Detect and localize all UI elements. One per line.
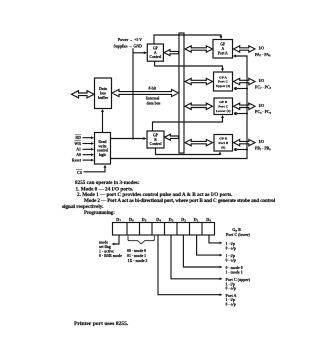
wire: cascade D3 port C upper [171,235,220,279]
svg-text:A1: A1 [76,148,81,152]
svg-text:I/O: I/O [259,79,265,83]
svg-text:data bus: data bus [147,102,161,106]
block: internal bus bar [179,33,184,153]
wire: group A control to port C upper top [155,61,223,70]
svg-text:1 - i/p: 1 - i/p [226,282,236,286]
svg-text:Power → +5 V: Power → +5 V [118,38,142,42]
junction on control vertical at port C upper [246,88,248,90]
external data bus arrow [72,91,95,98]
svg-text:Programming:: Programming: [84,211,115,216]
svg-text:A0: A0 [76,153,81,157]
bus arrow to port B [185,139,213,145]
svg-text:Upper (4): Upper (4) [216,84,231,88]
I/O arrow PC3-PC0 [234,103,256,109]
svg-text:Port C (lower): Port C (lower) [226,233,251,237]
svg-text:Port A: Port A [226,294,237,298]
I/O arrow PA7-PA0 [234,46,256,52]
wire: WR arrow into rw logic [83,143,93,145]
svg-text:Supplies → GND: Supplies → GND [113,45,142,49]
svg-text:00 - mode 0: 00 - mode 0 [127,249,146,253]
junction on control vertical at port B [246,149,248,151]
svg-text:Port C: Port C [218,80,228,84]
wire: A0 arrow into rw logic [83,154,93,156]
svg-text:1 - active: 1 - active [99,249,114,253]
wire: rw logic bottom line and right vertical [111,56,248,159]
svg-text:0 - o/p: 0 - o/p [226,259,236,263]
svg-text:mode: mode [99,240,108,244]
bus arrow to port C lower [185,103,213,109]
bus arrow to group A control [164,50,179,56]
svg-text:Internal: Internal [146,97,159,101]
bus arrow to port C upper [185,78,213,84]
svg-text:0 - o/p: 0 - o/p [226,246,236,250]
wire: group B control to port C lower bottom [153,117,223,132]
block: port A [213,40,233,59]
svg-text:Port C (upper): Port C (upper) [226,278,251,282]
svg-text:8-bit: 8-bit [149,86,157,90]
wire: D7 to mode set flag [113,235,119,244]
svg-text:CS: CS [77,171,82,175]
brace: D6 D5 group [128,236,154,244]
wire: rw logic to data bus buffer [102,110,104,133]
junction on control vertical at port C lower [246,113,248,115]
svg-text:GP: GP [220,43,226,47]
svg-text:WR: WR [74,142,81,146]
wire: pin into port B right edge [236,149,247,151]
block: group B control [147,131,164,148]
wire: CS to rw logic [84,167,106,172]
svg-text:Control: Control [149,55,161,59]
svg-text:RD: RD [75,136,81,140]
I/O arrow PB7-PB0 [234,139,256,145]
bus arrow to port A [185,46,213,52]
svg-text:8255 can operate in 3-modes:: 8255 can operate in 3-modes: [75,180,140,186]
block: port C lower [214,98,233,115]
svg-text:1X - mode 2: 1X - mode 2 [128,259,148,263]
svg-text:bus: bus [100,92,106,96]
svg-text:1 - i/p: 1 - i/p [226,298,236,302]
bus arrow to group B control [165,134,179,140]
svg-text:GP A: GP A [219,75,227,79]
svg-text:Data: Data [99,87,107,91]
svg-text:Lower (4): Lower (4) [216,109,231,113]
svg-text:0 - mode 0: 0 - mode 0 [226,266,243,270]
svg-text:I/O: I/O [259,140,265,144]
svg-text:1 - mode 1: 1 - mode 1 [226,271,243,275]
svg-text:A: A [221,47,224,51]
svg-text:0 - BSR mode: 0 - BSR mode [99,254,122,258]
register: control word D7..D0 [113,223,215,236]
svg-text:0 - o/p: 0 - o/p [226,303,236,307]
junction [132,138,134,140]
wire: RD arrow into rw logic [83,137,93,139]
wire: Reset arrow into rw logic [83,159,93,161]
wire: cascade D4 port A [158,235,220,295]
svg-text:01 - mode 1: 01 - mode 1 [127,254,146,258]
svg-text:buffer: buffer [98,96,109,100]
wire: pin into port C upper right edge [236,88,247,90]
svg-text:Reset: Reset [72,158,82,162]
block: read write control logic [95,133,111,165]
wire: cascade D2 group B mode [183,235,219,267]
block: port B [214,135,233,152]
svg-text:0 - o/p: 0 - o/p [226,287,236,291]
svg-text:I/O: I/O [259,47,265,51]
wire: group B control to port B bottom [156,148,221,155]
internal data bus arrow [112,89,179,96]
svg-text:set flag: set flag [99,245,111,249]
svg-text:1 - i/p: 1 - i/p [226,242,236,246]
svg-text:logic: logic [99,153,107,157]
svg-text:I/O: I/O [259,104,265,108]
svg-text:Mode 2 — Port A act as bi-dire: Mode 2 — Port A act as bi-directional po… [84,198,276,204]
wire: power line vertical [132,48,134,138]
wire: group A control to port A top [154,35,221,44]
wire: cascade D1 port B [197,235,220,255]
wire: rw logic to group A control [133,52,147,54]
wire: A1 arrow into rw logic [83,148,93,150]
wire: pin into port C lower right edge [236,113,247,115]
svg-text:1 - i/p: 1 - i/p [226,254,236,258]
block: group A control [147,44,163,61]
svg-text:signal respectively.: signal respectively. [62,204,104,210]
I/O arrow PC7-PC4 [234,78,256,84]
wire: cascade D0 port C lower [209,235,220,243]
block: port C upper [214,72,233,91]
svg-text:Control: Control [150,142,162,146]
svg-text:Port A: Port A [218,51,228,55]
block: data bus buffer [95,78,112,109]
wire: rw logic to group B control [111,138,145,140]
svg-text:Printer port uses 8255.: Printer port uses 8255. [74,321,129,327]
